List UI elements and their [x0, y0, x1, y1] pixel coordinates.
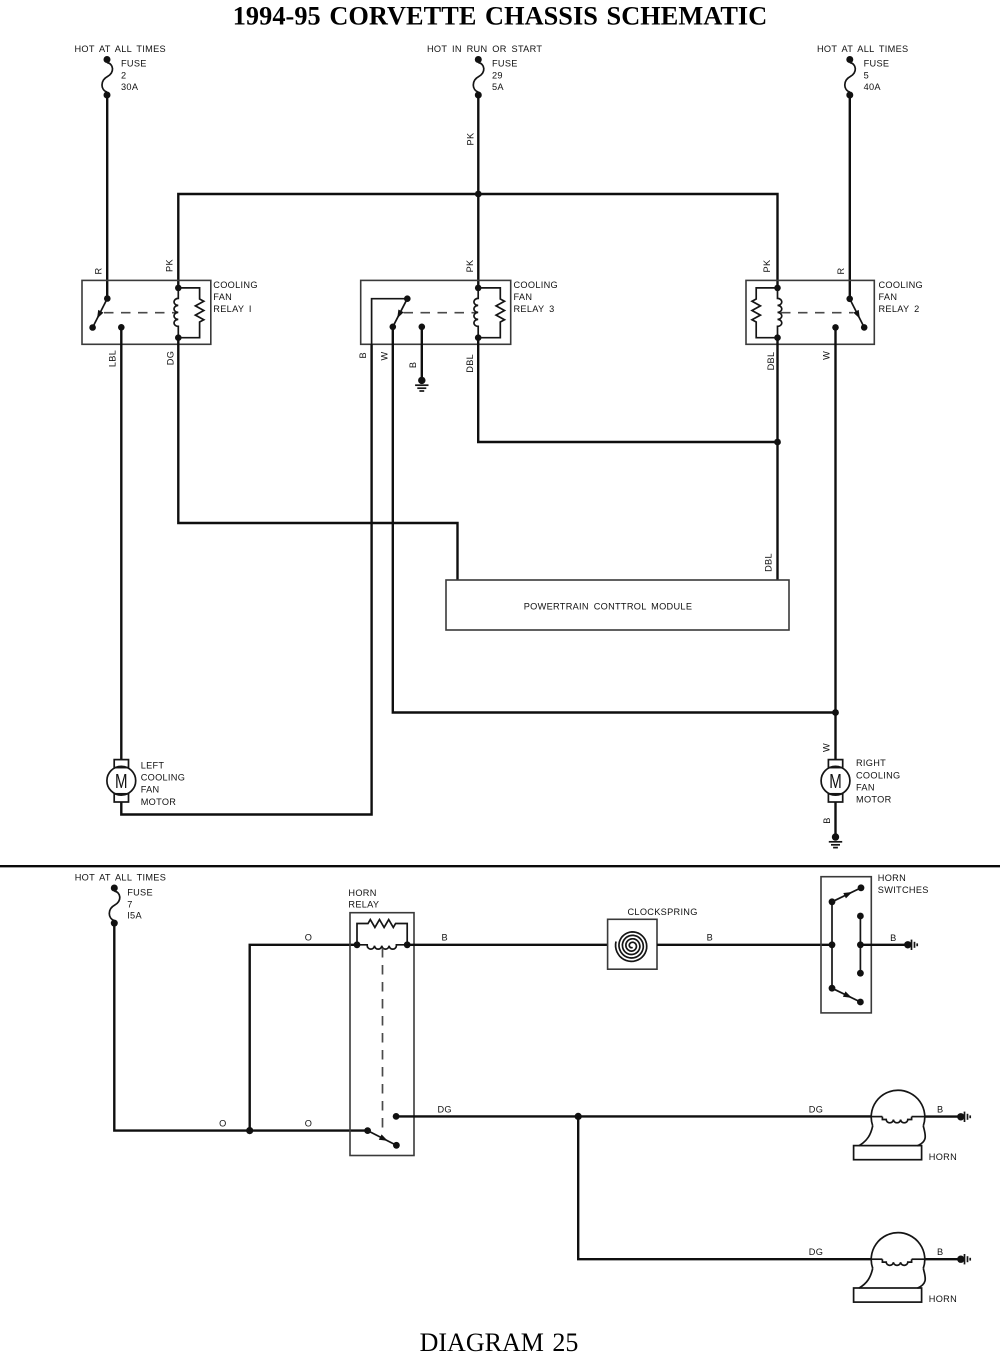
svg-text:W: W	[822, 351, 832, 360]
svg-text:B: B	[822, 817, 832, 823]
svg-text:MOTOR: MOTOR	[856, 795, 892, 805]
svg-text:POWERTRAIN CONTTROL MODULE: POWERTRAIN CONTTROL MODULE	[524, 601, 693, 611]
wire W relay3 to junction	[393, 327, 836, 713]
relay 1 switch	[89, 295, 124, 331]
svg-text:O: O	[305, 1119, 312, 1129]
svg-text:FUSE: FUSE	[127, 887, 153, 897]
horn relay box	[350, 913, 414, 1156]
clockspring box	[608, 919, 657, 969]
svg-text:HORN: HORN	[929, 1294, 957, 1304]
wire B horn switches to ground	[860, 944, 906, 946]
horn switches right column	[857, 913, 864, 977]
horn 2 B ground	[937, 1247, 970, 1264]
svg-text:SWITCHES: SWITCHES	[878, 885, 929, 895]
relay 3 switch	[372, 295, 426, 344]
svg-text:M: M	[829, 771, 842, 793]
relay 2 coil	[774, 285, 782, 341]
horn relay label	[348, 888, 379, 910]
horn 1	[854, 1090, 926, 1159]
relay 3 coil	[474, 285, 482, 341]
horn relay resistor	[357, 920, 407, 945]
svg-text:HOT AT ALL TIMES: HOT AT ALL TIMES	[75, 44, 166, 54]
svg-text:O: O	[305, 933, 312, 943]
ground stub relay3	[408, 327, 428, 391]
wire LBL relay1 to left motor	[120, 327, 122, 759]
svg-text:COOLING: COOLING	[879, 280, 923, 290]
relay 1 label	[213, 280, 257, 314]
relay 1 resistor	[178, 288, 204, 338]
horn switches bottom blade	[832, 988, 864, 1005]
svg-text:B: B	[358, 352, 368, 358]
ground chassis right of horn switches	[904, 940, 917, 950]
svg-text:COOLING: COOLING	[213, 280, 257, 290]
fuse 2 30A	[75, 44, 166, 99]
wire DG branch to horn 2	[578, 1116, 871, 1259]
svg-text:I5A: I5A	[127, 911, 142, 921]
relay 2 resistor	[752, 288, 778, 338]
wire O right branch to horn relay switch	[250, 1129, 368, 1131]
powertrain control module box	[446, 580, 789, 630]
svg-text:LBL: LBL	[107, 350, 117, 367]
horn switches label	[878, 873, 929, 895]
svg-text:RELAY: RELAY	[348, 900, 379, 910]
svg-text:HOT AT ALL TIMES: HOT AT ALL TIMES	[75, 873, 166, 883]
svg-text:R: R	[94, 267, 104, 274]
wire PK fuse29 down to relay3	[477, 95, 479, 288]
wire B relay3 to left motor bottom	[121, 344, 371, 814]
svg-text:RELAY 2: RELAY 2	[879, 304, 920, 314]
svg-text:FUSE: FUSE	[492, 59, 518, 69]
junction O	[246, 1127, 253, 1134]
relay 2 dashed link	[781, 312, 853, 314]
horn switches left column	[829, 898, 836, 991]
svg-text:29: 29	[492, 71, 503, 81]
wire O fuse7 to junction	[114, 923, 249, 1131]
svg-text:COOLING: COOLING	[514, 280, 558, 290]
svg-text:COOLING: COOLING	[856, 770, 900, 780]
svg-text:CLOCKSPRING: CLOCKSPRING	[628, 907, 698, 917]
junction bus/fuse29	[475, 191, 482, 198]
svg-text:HORN: HORN	[929, 1152, 957, 1162]
svg-text:FAN: FAN	[141, 785, 160, 795]
wire B horn relay to clockspring	[407, 944, 607, 946]
svg-text:DBL: DBL	[763, 553, 773, 572]
horn relay coil	[354, 941, 411, 949]
right motor label	[856, 758, 900, 804]
relay 1 dashed link	[104, 312, 176, 314]
relay 2 switch	[832, 296, 867, 331]
svg-text:FAN: FAN	[879, 292, 898, 302]
svg-text:PK: PK	[762, 259, 772, 272]
svg-text:HOT AT ALL TIMES: HOT AT ALL TIMES	[817, 44, 908, 54]
svg-text:DG: DG	[809, 1247, 823, 1257]
svg-text:B: B	[441, 933, 447, 943]
left cooling fan motor	[107, 760, 136, 802]
svg-text:M: M	[115, 771, 128, 793]
svg-text:DIAGRAM 25: DIAGRAM 25	[420, 1328, 579, 1357]
relay 1 coil	[174, 285, 182, 341]
svg-text:PK: PK	[466, 132, 476, 145]
svg-text:MOTOR: MOTOR	[141, 797, 177, 807]
svg-text:RELAY 3: RELAY 3	[514, 304, 555, 314]
wire W relay2 to right motor	[834, 327, 836, 759]
svg-text:7: 7	[127, 899, 132, 909]
svg-text:HORN: HORN	[878, 873, 906, 883]
clockspring spiral	[616, 932, 647, 962]
wire DBL relay2 to PCM	[776, 338, 778, 580]
relay 3 label	[514, 280, 558, 314]
svg-text:HORN: HORN	[348, 888, 376, 898]
relay 1 box	[82, 280, 211, 344]
fuse 5 40A	[817, 44, 908, 99]
svg-text:RIGHT: RIGHT	[856, 758, 886, 768]
svg-text:DG: DG	[809, 1104, 823, 1114]
horn relay dashed link	[382, 948, 384, 1128]
svg-text:B: B	[707, 933, 713, 943]
relay 3 box	[361, 280, 511, 344]
separator line	[0, 865, 1000, 867]
svg-text:FAN: FAN	[213, 292, 232, 302]
svg-text:PK: PK	[164, 259, 174, 272]
bus wire PK	[178, 194, 777, 288]
svg-text:O: O	[219, 1119, 226, 1129]
fuse 7 15A	[75, 873, 166, 927]
relay 3 dashed link	[404, 312, 477, 314]
svg-text:5A: 5A	[492, 82, 504, 92]
fuse 29 5A	[427, 44, 542, 99]
svg-text:FAN: FAN	[856, 782, 875, 792]
wire DBL relay3 to junction	[478, 338, 777, 442]
wire R fuse5 to relay2 switch	[849, 95, 851, 299]
relay 2 box	[746, 280, 874, 344]
wire DG relay1 to PCM	[178, 338, 457, 580]
svg-text:DG: DG	[166, 351, 176, 365]
svg-text:FUSE: FUSE	[864, 59, 890, 69]
svg-text:B: B	[408, 362, 418, 368]
horn 1 B ground	[937, 1105, 970, 1122]
horn switches box	[821, 877, 871, 1013]
svg-text:5: 5	[864, 71, 869, 81]
svg-text:DBL: DBL	[766, 352, 776, 371]
wire R fuse2 to relay1 switch	[106, 95, 108, 299]
wire DG horn relay to horn 1	[396, 1115, 871, 1117]
svg-text:DBL: DBL	[465, 354, 475, 373]
wire B clockspring to horn switches	[657, 944, 832, 946]
relay 3 resistor	[478, 288, 504, 338]
svg-text:40A: 40A	[864, 82, 882, 92]
svg-text:B: B	[937, 1105, 943, 1115]
left motor label	[141, 761, 185, 807]
svg-text:W: W	[379, 351, 389, 360]
svg-text:W: W	[822, 743, 832, 752]
svg-text:RELAY I: RELAY I	[213, 304, 252, 314]
horn relay switch	[364, 1113, 400, 1149]
junction DG	[575, 1113, 582, 1120]
horn switches top blade	[832, 884, 864, 901]
svg-text:B: B	[890, 933, 896, 943]
svg-text:FUSE: FUSE	[121, 59, 147, 69]
svg-text:COOLING: COOLING	[141, 773, 185, 783]
svg-text:R: R	[836, 267, 846, 274]
horn 2	[854, 1233, 926, 1302]
svg-text:1994-95 CORVETTE CHASSIS SCHEM: 1994-95 CORVETTE CHASSIS SCHEMATIC	[233, 2, 768, 31]
svg-text:30A: 30A	[121, 82, 139, 92]
svg-text:DG: DG	[438, 1104, 452, 1114]
svg-text:LEFT: LEFT	[141, 761, 165, 771]
relay 2 label	[879, 280, 923, 314]
wire O up branch to horn relay coil	[250, 945, 357, 1131]
svg-text:2: 2	[121, 71, 126, 81]
svg-text:HOT IN RUN OR START: HOT IN RUN OR START	[427, 44, 542, 54]
svg-text:PK: PK	[465, 259, 475, 272]
svg-text:B: B	[937, 1247, 943, 1257]
wire B right motor to ground	[822, 802, 842, 848]
svg-text:FAN: FAN	[514, 292, 533, 302]
right cooling fan motor	[821, 760, 850, 802]
